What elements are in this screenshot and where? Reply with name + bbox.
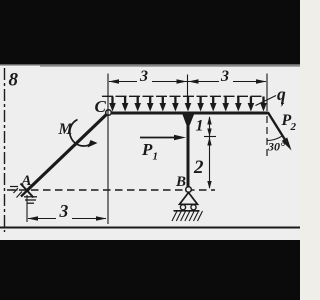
svg-text:P: P bbox=[141, 140, 153, 159]
svg-text:C: C bbox=[95, 97, 107, 116]
svg-text:3: 3 bbox=[59, 201, 69, 221]
svg-text:1: 1 bbox=[196, 118, 204, 135]
svg-text:1: 1 bbox=[153, 151, 159, 163]
svg-text:8: 8 bbox=[9, 70, 19, 91]
svg-text:A: A bbox=[21, 173, 32, 189]
svg-text:B: B bbox=[175, 174, 186, 190]
svg-text:,: , bbox=[280, 94, 284, 108]
svg-text:30°: 30° bbox=[267, 140, 285, 154]
svg-text:2: 2 bbox=[193, 157, 204, 178]
svg-text:2: 2 bbox=[290, 121, 297, 133]
svg-text:3: 3 bbox=[220, 68, 229, 85]
svg-text:3: 3 bbox=[139, 68, 148, 85]
svg-text:M: M bbox=[58, 121, 74, 138]
